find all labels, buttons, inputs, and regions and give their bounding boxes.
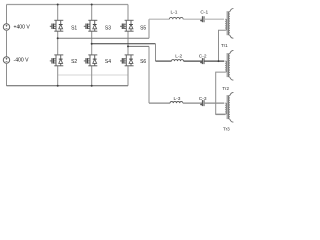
svg-text:C-2: C-2 [199,53,207,59]
svg-text:S4: S4 [105,59,111,65]
svg-text:S5: S5 [140,25,146,31]
svg-text:L-1: L-1 [171,10,178,16]
svg-text:Tr3: Tr3 [223,126,230,131]
svg-text:+400 V: +400 V [14,25,31,31]
svg-text:Tr1: Tr1 [221,43,228,48]
svg-text:L-3: L-3 [174,96,181,102]
svg-text:S6: S6 [140,59,146,65]
svg-text:L-2: L-2 [175,53,182,59]
svg-text:-400 V: -400 V [14,58,30,64]
svg-text:C-3: C-3 [199,96,207,102]
svg-text:S2: S2 [71,59,77,65]
svg-text:S1: S1 [71,25,77,31]
svg-text:Tr2: Tr2 [222,86,229,91]
svg-text:C-1: C-1 [200,10,208,16]
svg-text:S3: S3 [105,25,111,31]
